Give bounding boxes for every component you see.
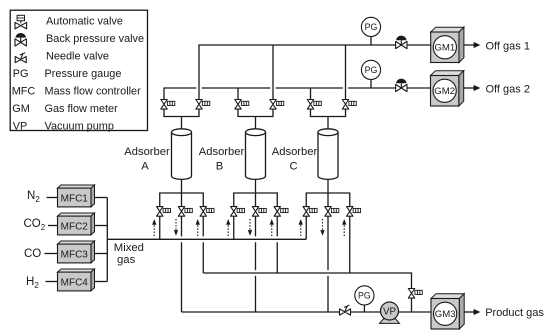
wire: adsorber A top header xyxy=(164,109,199,116)
svg-text:Mixed: Mixed xyxy=(114,242,144,254)
wire: off-gas-2 manifold (second line) with riser from adsorber A left valve xyxy=(164,88,431,100)
wire: MFC1 outlet xyxy=(95,197,108,199)
wire: adsorber B top header xyxy=(238,109,273,116)
svg-text:Vacuum pump: Vacuum pump xyxy=(45,120,114,132)
back pressure valve on off-gas 1 line xyxy=(396,36,407,49)
wire: H2 to MFC4 xyxy=(46,281,58,283)
back pressure valve on off-gas 2 line xyxy=(396,79,407,92)
wire: mixed gas line xyxy=(107,238,306,240)
wire: C-feed drop xyxy=(305,216,307,239)
svg-text:VP: VP xyxy=(13,120,28,132)
svg-text:GM2: GM2 xyxy=(434,86,455,97)
wire: MFC collector xyxy=(106,198,108,282)
wire: B-feed drop xyxy=(233,216,235,239)
valve bottom C-equalize xyxy=(347,207,361,217)
valve top C-right xyxy=(342,100,356,110)
flow arrow down at A-product xyxy=(174,219,178,236)
wire: riser adsorber B right valve to line 1 xyxy=(272,45,274,100)
wire: adsorber C top stem xyxy=(327,117,329,130)
needle valve on product line xyxy=(340,305,351,315)
vacuum pump VP xyxy=(380,302,400,323)
svg-text:Gas flow meter: Gas flow meter xyxy=(45,103,119,115)
svg-text:Adsorber: Adsorber xyxy=(124,146,170,158)
svg-text:Needle valve: Needle valve xyxy=(46,51,109,63)
arrow to Off gas 2 xyxy=(464,85,481,91)
adsorber B vessel xyxy=(246,129,266,180)
arrow to Product gas xyxy=(464,309,480,315)
mass flow controller MFC3 xyxy=(58,241,95,263)
wire: riser adsorber C right valve to line 1 xyxy=(345,45,347,100)
gas flow meter GM2 xyxy=(431,71,464,106)
svg-text:Mass flow controller: Mass flow controller xyxy=(45,86,142,98)
wire: MFC3 outlet xyxy=(95,253,108,255)
svg-text:Off gas 1: Off gas 1 xyxy=(486,41,530,53)
mass flow controller MFC2 xyxy=(58,213,95,235)
adsorber A vessel xyxy=(172,129,192,180)
valve bottom B-equalize xyxy=(274,207,288,217)
svg-text:gas: gas xyxy=(117,254,136,266)
svg-text:Product gas: Product gas xyxy=(485,307,544,319)
svg-text:A: A xyxy=(141,160,149,172)
valve top B-left xyxy=(235,100,249,110)
svg-text:Pressure gauge: Pressure gauge xyxy=(45,68,122,80)
wire: off-gas-1 manifold (top line) with riser from adsorber A right valve xyxy=(199,45,431,100)
pressure gauge PG2 stub xyxy=(370,79,372,88)
flow arrow up at C-equalize xyxy=(342,219,346,236)
valve bottom B-product xyxy=(252,207,266,217)
wire: CO to MFC3 xyxy=(45,253,58,255)
svg-text:C: C xyxy=(289,160,297,172)
svg-text:GM3: GM3 xyxy=(435,309,456,320)
adsorber C vessel xyxy=(318,129,338,180)
valve top B-right xyxy=(270,100,284,110)
svg-text:GM: GM xyxy=(12,103,30,115)
wire: A-feed drop to mixed gas line xyxy=(159,216,161,239)
valve bottom A-equalize xyxy=(200,207,214,217)
flow arrow down at C-product xyxy=(320,219,324,236)
svg-text:MFC: MFC xyxy=(12,86,36,98)
flow arrow up at B-equalize xyxy=(270,219,274,236)
pressure gauge PG3 stub xyxy=(363,305,365,312)
valve top A-left xyxy=(161,100,175,110)
valve bottom C-product xyxy=(325,207,339,217)
pressure gauge PG2 xyxy=(361,60,380,79)
flow arrow up at A-feed xyxy=(152,219,156,236)
mass flow controller MFC1 xyxy=(58,185,95,207)
wire: adsorber C bottom stem and header xyxy=(306,179,350,207)
wire: adsorber B bottom stem and header xyxy=(234,179,278,207)
wire: C-product drop xyxy=(327,216,329,312)
svg-text:Adsorber: Adsorber xyxy=(199,146,245,158)
wire: B-equalize drop xyxy=(276,216,278,273)
wire: A-equalize drop to equalization line xyxy=(202,216,204,273)
svg-text:GM1: GM1 xyxy=(434,43,455,54)
wire: MFC4 outlet xyxy=(95,281,108,283)
wire: product line xyxy=(182,311,432,313)
flow arrow up at C-feed xyxy=(299,219,303,236)
svg-text:MFC2: MFC2 xyxy=(61,221,89,232)
svg-text:Back pressure valve: Back pressure valve xyxy=(46,33,144,45)
svg-text:VP: VP xyxy=(383,306,397,317)
valve bottom B-feed xyxy=(231,207,245,217)
svg-text:Adsorber: Adsorber xyxy=(272,146,318,158)
wire: MFC2 outlet xyxy=(95,225,108,227)
gas flow meter GM3 xyxy=(431,294,464,329)
wire: adsorber B top stem xyxy=(255,117,257,130)
wire: A-product drop to product line xyxy=(181,216,183,312)
wire: CO2 to MFC2 xyxy=(48,225,58,227)
wire: N2 to MFC1 xyxy=(47,197,58,199)
valve bottom C-feed xyxy=(303,207,317,217)
arrow to Off gas 1 xyxy=(464,42,480,48)
wire: adsorber C top header xyxy=(311,109,346,116)
svg-text:PG: PG xyxy=(13,68,29,80)
automatic valve on equalization drop xyxy=(408,289,422,299)
valve top C-left xyxy=(307,100,321,110)
svg-text:Off gas 2: Off gas 2 xyxy=(486,84,530,96)
gas flow meter GM1 xyxy=(431,27,464,62)
svg-text:B: B xyxy=(216,160,223,172)
wire: adsorber A bottom stem and header xyxy=(160,179,204,207)
flow arrow up at A-equalize xyxy=(196,219,200,236)
wire: riser adsorber B left valve to line 2 xyxy=(237,88,239,100)
valve bottom A-feed xyxy=(157,207,171,217)
pressure gauge PG1 stub xyxy=(370,36,372,45)
pressure gauge PG3 xyxy=(355,286,374,305)
legend back pressure valve symbol xyxy=(15,33,26,46)
svg-text:MFC3: MFC3 xyxy=(61,249,89,260)
svg-text:Automatic valve: Automatic valve xyxy=(46,16,123,28)
svg-text:MFC4: MFC4 xyxy=(61,277,89,288)
flow arrow up at B-feed xyxy=(226,219,230,236)
wire: adsorber A top stem xyxy=(181,117,183,130)
flow arrow down at B-product xyxy=(248,219,252,236)
wire: C-equalize drop xyxy=(349,216,351,273)
svg-text:CO: CO xyxy=(24,248,41,260)
wire: B-product drop xyxy=(255,216,257,312)
wire: riser adsorber C left valve to line 2 xyxy=(310,88,312,100)
legend needle valve symbol xyxy=(15,53,26,63)
valve top A-right xyxy=(196,100,210,110)
wire: equalization line to product drop xyxy=(203,273,411,312)
pressure gauge PG1 xyxy=(361,17,380,36)
svg-text:MFC1: MFC1 xyxy=(61,193,89,204)
mass flow controller MFC4 xyxy=(58,269,95,291)
valve bottom A-product xyxy=(178,207,192,217)
legend box frame xyxy=(10,10,147,130)
legend automatic valve symbol xyxy=(15,15,27,29)
